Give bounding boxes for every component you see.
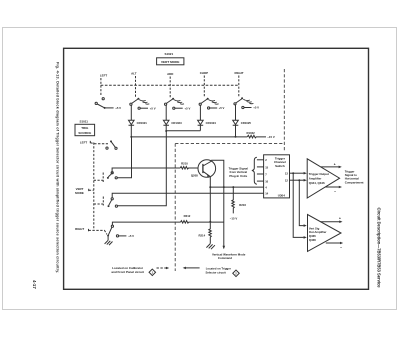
wire: pin12 output — [290, 179, 304, 181]
svg-text:VERT MODE: VERT MODE — [161, 60, 179, 64]
command arrowhead down — [223, 246, 226, 250]
node junction dot ALT diode — [130, 136, 132, 138]
symbol diamond 1 — [149, 269, 156, 276]
wire: dashed drop RIGHT — [238, 76, 240, 98]
svg-text:R214: R214 — [198, 234, 205, 238]
wire: brace stub pin15 — [257, 166, 264, 168]
svg-text:ADD: ADD — [167, 72, 173, 76]
diode CR1023 — [163, 105, 169, 131]
wire: pin12 to vert sig amp upper input — [299, 180, 304, 225]
svg-text:−: − — [334, 189, 336, 193]
node junction emitter/pin4 — [209, 186, 211, 188]
ground under S1011 row4 — [105, 237, 113, 245]
wire: dashed link row2 — [94, 173, 103, 183]
svg-text:CR1021: CR1021 — [137, 121, 148, 125]
svg-text:RIGHT: RIGHT — [75, 227, 84, 231]
wire: dashed linkage vertical S1011 — [93, 143, 95, 231]
VERT MODE box — [157, 58, 184, 65]
wire: ADD bus down to trig source row3 contact — [118, 131, 167, 206]
node junction pin12 tap — [298, 179, 300, 181]
diode CR1024 — [198, 105, 204, 130]
svg-text:Q208: Q208 — [191, 173, 198, 177]
svg-text:−15 V: −15 V — [230, 216, 238, 220]
wire: trig out + — [321, 166, 339, 168]
svg-text:Fig. 4-13. Detailed block diag: Fig. 4-13. Detailed block diagram of Tri… — [56, 62, 60, 273]
svg-text:−: − — [340, 246, 342, 250]
switch section S1021-CHOP — [199, 99, 219, 109]
node junction dot RIGHT diode — [235, 136, 237, 138]
wire: ALT bus down to trig source row2 contact — [117, 137, 131, 178]
wire: vert sig out + — [321, 221, 340, 223]
svg-text:R210: R210 — [181, 161, 188, 165]
resistor R214 — [209, 222, 212, 244]
svg-text:Plug-In Units: Plug-In Units — [229, 174, 247, 178]
svg-text:S1011: S1011 — [79, 120, 88, 124]
svg-text:+: + — [339, 217, 341, 221]
svg-text:Amplifier: Amplifier — [309, 177, 322, 181]
schematic frame border — [64, 48, 369, 289]
wire: brace stub pin7 — [257, 173, 264, 175]
svg-text:LEFT: LEFT — [100, 74, 107, 78]
svg-text:+5 V: +5 V — [219, 106, 225, 110]
wire: dashed link row3 — [94, 197, 104, 206]
wire: dashed drop LEFT — [100, 78, 102, 96]
TRIG SOURCE box — [75, 124, 95, 135]
svg-text:+5 V: +5 V — [253, 106, 259, 110]
svg-text:and Front Panel circuit: and Front Panel circuit — [111, 270, 144, 274]
op-amp Vert Sig Out Amplifier Q336 Q338 — [308, 215, 342, 252]
symbol diamond 2 — [233, 270, 240, 277]
svg-text:15: 15 — [265, 165, 268, 169]
svg-text:U304: U304 — [278, 194, 286, 198]
svg-text:4-17: 4-17 — [32, 280, 37, 289]
svg-text:CR1024: CR1024 — [206, 121, 217, 125]
svg-text:MODE: MODE — [75, 191, 84, 195]
wire: dashed mechanical bus of S1021 — [101, 84, 239, 86]
wire: dashed drop ADD — [169, 77, 171, 98]
svg-text:LEFT: LEFT — [80, 141, 87, 145]
svg-text:ALT: ALT — [131, 71, 137, 75]
svg-text:+5 V: +5 V — [185, 106, 191, 110]
wire: Q208 collector to command line — [212, 160, 224, 248]
diode CR1025 — [233, 105, 239, 137]
transistor Q208 — [198, 160, 216, 178]
svg-text:RIGHT: RIGHT — [235, 71, 244, 75]
svg-text:+5 V: +5 V — [128, 234, 134, 238]
wire: dashed drop CHOP — [203, 76, 205, 98]
svg-text:Switch: Switch — [275, 164, 285, 168]
svg-text:+: + — [334, 162, 336, 166]
resistor R216 — [232, 187, 235, 213]
node junction R212/emitter — [209, 221, 211, 223]
svg-text:+5 V: +5 V — [115, 106, 121, 110]
node junction collector/pin4 — [223, 186, 225, 188]
wire: vert sig out - — [326, 242, 340, 244]
wire: dashed board boundary top — [175, 143, 284, 145]
wire: dashed board boundary right stub — [283, 69, 285, 151]
svg-text:R1022: R1022 — [246, 131, 255, 135]
svg-text:SOURCE: SOURCE — [78, 131, 91, 135]
resistor R1022 — [247, 135, 266, 138]
svg-text:CR1023: CR1023 — [171, 121, 182, 125]
wire: dashed tick RIGHT row — [89, 229, 108, 235]
svg-text:12: 12 — [285, 179, 288, 183]
resistor R212 — [181, 221, 224, 224]
op-amp Trigger Output Amplifier Q344 Q346 — [307, 159, 339, 198]
svg-text:−15 V: −15 V — [267, 135, 275, 139]
node junction R216/pin4 — [232, 186, 234, 188]
wire: pin13 to vert sig amp lower input — [293, 173, 304, 237]
svg-text:14: 14 — [265, 191, 268, 195]
wire: brace stub pin2 — [257, 159, 264, 161]
wire: Q208 emitter down — [209, 176, 211, 221]
svg-text:Compartment: Compartment — [345, 180, 364, 184]
wire: dashed board boundary left — [174, 144, 176, 271]
svg-text:CHOP: CHOP — [200, 71, 208, 75]
wire: dashed tick LEFT row — [90, 141, 108, 144]
svg-text:Q338: Q338 — [309, 238, 316, 242]
svg-text:TRIG: TRIG — [81, 126, 89, 130]
switch section S1011 row3 — [109, 193, 264, 207]
svg-text:R216: R216 — [239, 203, 246, 207]
node junction dot ADD diode — [165, 130, 167, 132]
svg-text:Q344, Q346: Q344, Q346 — [309, 181, 325, 185]
switch section S1011 row1 — [106, 141, 117, 149]
svg-text:Command: Command — [218, 256, 232, 260]
svg-text:Trigger Output: Trigger Output — [309, 172, 329, 176]
svg-text:+5 V: +5 V — [150, 106, 156, 110]
switch section S1021-RIGHT — [234, 99, 254, 109]
wire: diode bus ALT/RIGHT to R1022 — [131, 136, 247, 138]
wire: dashed tick VERT MODE row — [89, 189, 94, 192]
wire: ADD/CHOP diode join — [166, 130, 200, 132]
wire: legend arrow left — [185, 267, 200, 269]
svg-text:10: 10 — [265, 180, 268, 184]
switch section S1021-ALT — [130, 99, 150, 109]
wire: pin13 output — [290, 172, 304, 174]
ground under R214 — [206, 244, 215, 250]
svg-text:Selector circuit: Selector circuit — [205, 271, 225, 275]
wire: brace stub pin10 — [257, 180, 264, 182]
op-amp U304 box — [264, 155, 290, 198]
node junction pin13 tap — [292, 172, 294, 174]
wire: dashed drop ALT — [135, 76, 137, 98]
svg-text:13: 13 — [285, 172, 288, 176]
switch section S1011 row4 (RIGHT pole) — [108, 222, 180, 237]
brace for plug-in trigger inputs — [252, 157, 257, 184]
resistor R210 — [180, 167, 198, 170]
switch section S1021-LEFT — [95, 98, 114, 108]
diode CR1021 — [129, 105, 135, 137]
svg-text:Circuit Description—7B53/R7B53: Circuit Description—7B53/R7B53 Service — [377, 208, 382, 289]
svg-text:CR1025: CR1025 — [241, 121, 252, 125]
svg-text:S1021: S1021 — [164, 52, 173, 56]
wire: trig out - — [325, 186, 339, 188]
switch section S1011 row2 (VERT MODE pole) — [108, 168, 180, 179]
wire: legend arrow right — [157, 267, 167, 269]
wire: pin 4 line — [210, 186, 263, 188]
switch section S1021-ADD — [165, 99, 185, 109]
svg-text:R212: R212 — [184, 214, 191, 218]
